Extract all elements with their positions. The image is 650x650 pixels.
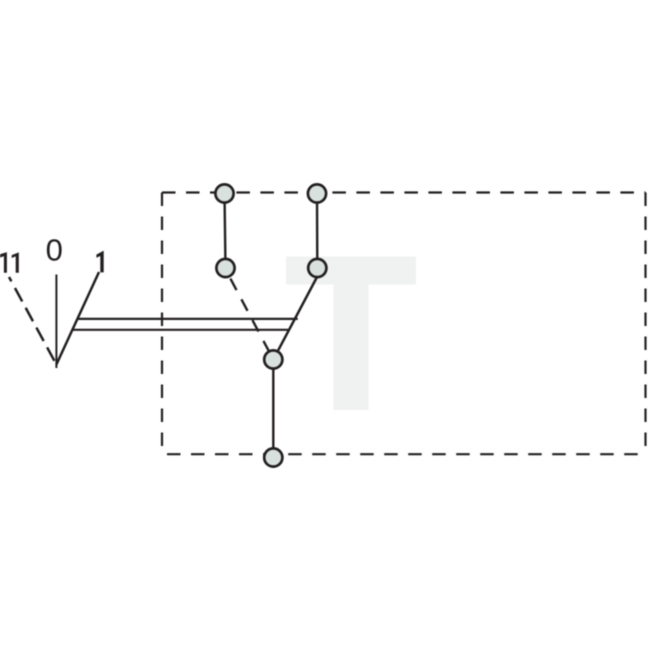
svg-text:0: 0 — [46, 232, 63, 267]
